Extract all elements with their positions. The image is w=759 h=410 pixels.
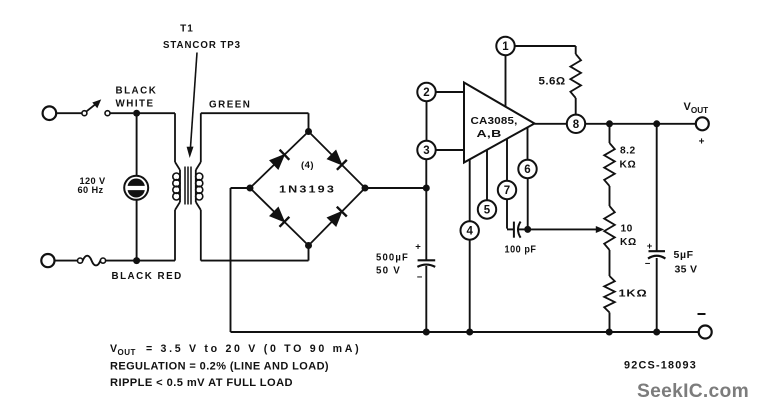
- terminal VOUT plus: [696, 117, 709, 130]
- wire node W1 to transformer primary top: [137, 112, 175, 114]
- label 35 V: [675, 264, 698, 276]
- svg-text:KΩ: KΩ: [620, 159, 637, 170]
- wire pin 4 to rail: [469, 240, 471, 332]
- wire pin 3 to regulator body: [436, 149, 464, 151]
- wire node W1 down to pilot lamp: [136, 113, 138, 176]
- label 1 K-ohm: [619, 289, 648, 300]
- label 8.2: [620, 146, 636, 157]
- resistor R1 5.6 ohm: [570, 54, 581, 98]
- wire capacitor C3 to rail: [656, 258, 658, 332]
- svg-text:WHITE: WHITE: [116, 99, 155, 110]
- wire pin 6 to regulator bottom edge: [527, 128, 529, 160]
- svg-text:A,B: A,B: [477, 129, 502, 140]
- wire R2 to potentiometer R3: [609, 186, 611, 206]
- label K-ohm (R2): [620, 159, 637, 170]
- svg-text:(4): (4): [301, 160, 314, 171]
- wire bridge plus to node N1: [365, 187, 426, 189]
- junction node bridge right (DC plus): [362, 185, 369, 192]
- label 1N3193: [279, 183, 336, 195]
- pin 5: [478, 200, 496, 218]
- op-amp U1 CA3085 A,B (regulator triangle): [464, 83, 535, 163]
- svg-text:+: +: [647, 241, 653, 252]
- wire resistor R1 to pin 8: [575, 98, 577, 114]
- wire pin 5 to regulator bottom edge: [486, 150, 488, 200]
- svg-text:60 Hz: 60 Hz: [77, 185, 103, 195]
- wire secondary bottom to bridge bottom node: [201, 246, 309, 261]
- label (4): [301, 160, 314, 171]
- svg-text:8.2: 8.2: [620, 146, 636, 157]
- wire bridge minus to bottom rail: [231, 188, 251, 332]
- label CA3085,: [471, 116, 518, 127]
- wire capacitor C2 to node N2: [519, 228, 525, 230]
- svg-text:BLACK: BLACK: [116, 86, 158, 97]
- wire capacitor C1 to rail: [425, 266, 427, 332]
- svg-text:7: 7: [504, 185, 510, 197]
- label + (output polarity): [699, 137, 705, 148]
- pin 2: [417, 83, 435, 101]
- capacitor C1 500uF 50V (polarized): [415, 241, 435, 283]
- label 60 Hz: [77, 185, 103, 195]
- svg-text:1: 1: [502, 41, 509, 53]
- label WHITE (top lead): [116, 99, 155, 110]
- wire node down to capacitor C3: [656, 124, 658, 251]
- junction R4 on rail: [606, 329, 613, 336]
- junction C1 on rail: [423, 329, 430, 336]
- junction node W2 (lamp tap, bottom): [133, 257, 140, 264]
- svg-text:RIPPLE < 0.5 mV AT FULL LOAD: RIPPLE < 0.5 mV AT FULL LOAD: [110, 377, 293, 389]
- junction node W1 (lamp tap, top): [133, 110, 140, 117]
- label A,B: [477, 129, 502, 140]
- label STANCOR TP3: [163, 40, 241, 51]
- potentiometer R3 10 K-ohm: [604, 206, 615, 250]
- wire node W2 to transformer primary bottom: [137, 260, 175, 262]
- svg-text:4: 4: [466, 226, 473, 238]
- pin 1: [496, 37, 514, 55]
- note line 1: VOUT range: [110, 343, 359, 357]
- label GREEN (secondary lead): [209, 99, 251, 110]
- svg-text:T1: T1: [180, 24, 194, 35]
- svg-text:2: 2: [423, 87, 429, 99]
- pilot lamp DS1 (120 V 60 Hz indicator): [124, 176, 148, 200]
- pin 3: [417, 141, 435, 159]
- wire node to resistor R2: [609, 124, 611, 143]
- svg-text:1N3193: 1N3193: [279, 183, 336, 195]
- svg-text:STANCOR TP3: STANCOR TP3: [163, 40, 241, 51]
- wire pilot lamp to node W2: [136, 200, 138, 261]
- label K-ohm (R3): [620, 237, 637, 248]
- svg-text:REGULATION = 0.2% (LINE AND LO: REGULATION = 0.2% (LINE AND LOAD): [110, 361, 329, 373]
- svg-text:35 V: 35 V: [675, 264, 698, 276]
- wire node N1 down to capacitor C1: [425, 188, 427, 260]
- diode CR3 (left-bottom edge, 1N3193): [270, 207, 289, 226]
- label 100 pF: [505, 244, 537, 255]
- wire node N2 to potentiometer R3 wiper: [528, 226, 605, 233]
- transformer T1 primary winding: [173, 113, 180, 260]
- pin 7: [498, 181, 516, 199]
- svg-text:V: V: [110, 343, 117, 355]
- note line 2: regulation: [110, 361, 329, 373]
- svg-text:100 pF: 100 pF: [505, 244, 537, 255]
- pin 4: [461, 221, 479, 239]
- svg-text:50 V: 50 V: [376, 265, 401, 276]
- svg-text:−: −: [645, 259, 651, 270]
- svg-text:10: 10: [621, 223, 633, 234]
- watermark SeekIC.com: [637, 380, 749, 402]
- svg-text:8: 8: [573, 119, 580, 131]
- svg-text:+: +: [415, 241, 421, 252]
- junction node 5uF top: [653, 120, 660, 127]
- label - (output polarity): [698, 313, 706, 315]
- wire terminal to fuse F1: [55, 260, 78, 262]
- bridge rectifier ring (4x 1N3193): [250, 132, 365, 246]
- wire switch to node W1: [110, 112, 133, 114]
- svg-text:CA3085,: CA3085,: [471, 116, 518, 127]
- junction C3 on rail: [653, 329, 660, 336]
- switch S1 (open lever with arrow): [82, 99, 110, 115]
- resistor R2 8.2 K-ohm: [604, 143, 615, 186]
- junction pin 4 on rail: [466, 329, 473, 336]
- label 500 uF: [376, 253, 409, 264]
- wire bottom DC rail (minus bus): [231, 331, 699, 333]
- svg-text:BLACK RED: BLACK RED: [112, 271, 183, 282]
- svg-text:OUT: OUT: [118, 348, 136, 357]
- label 5.6 ohm: [539, 76, 566, 88]
- svg-text:5.6Ω: 5.6Ω: [539, 76, 566, 88]
- diode CR4 (bottom-right edge, 1N3193): [327, 207, 346, 226]
- capacitor C2 100 pF: [514, 222, 521, 238]
- svg-text:92CS-18093: 92CS-18093: [624, 360, 697, 372]
- junction node N1 (unregulated +, pin 3 tap): [423, 185, 430, 192]
- wire pin 7 down to capacitor C2: [507, 199, 513, 229]
- junction node bridge left (DC minus): [247, 185, 254, 192]
- wire pin 7 to regulator bottom edge: [506, 139, 508, 181]
- wire pin 8 to VOUT terminal: [585, 123, 696, 125]
- label 120 V: [79, 176, 105, 186]
- svg-text:5: 5: [484, 205, 491, 217]
- wire GREEN: secondary top to bridge top node: [201, 113, 309, 131]
- terminal AC input bottom (plug): [41, 254, 54, 267]
- pin 8: [567, 115, 585, 133]
- wire pin 6 down to node N2: [527, 178, 529, 229]
- label VOUT (output): [684, 101, 709, 115]
- svg-text:+: +: [699, 137, 705, 148]
- label BLACK (top lead): [116, 86, 158, 97]
- junction node bridge bottom (AC): [305, 242, 312, 249]
- junction node N2 (pin 6 / C2 / wiper): [524, 226, 531, 233]
- svg-text:GREEN: GREEN: [209, 99, 251, 110]
- label 50 V: [376, 265, 401, 276]
- diode CR1 (left-top edge, 1N3193): [270, 150, 289, 169]
- capacitor C3 5uF 35V (polarized): [645, 241, 666, 270]
- fuse / breaker F1: [78, 256, 106, 266]
- svg-text:−: −: [417, 272, 423, 283]
- wire pin 2 to regulator body: [436, 91, 464, 93]
- svg-text:SeekIC.com: SeekIC.com: [637, 380, 749, 402]
- wire fuse to node W2: [106, 260, 137, 262]
- pin 6: [518, 160, 536, 178]
- svg-text:KΩ: KΩ: [620, 237, 637, 248]
- wire pin 4 to regulator bottom edge: [469, 159, 471, 221]
- wire R4 to rail: [609, 313, 611, 333]
- wire pin 1 to regulator top edge: [505, 55, 507, 107]
- wire terminal to switch S1: [56, 112, 82, 114]
- label 10: [621, 223, 633, 234]
- label 5 uF: [674, 249, 694, 261]
- transformer T1 core: [185, 167, 191, 205]
- diode CR2 (top-right edge, 1N3193): [327, 150, 346, 169]
- junction node VOUT top (R2 tap): [606, 120, 613, 127]
- wire R3 to resistor R4: [609, 250, 611, 276]
- terminal output minus: [699, 326, 712, 339]
- svg-text:3: 3: [423, 145, 429, 157]
- junction node bridge top (AC): [305, 128, 312, 135]
- wire pin 2 net (vertical link 2-3): [426, 101, 428, 141]
- label BLACK RED (bottom leads): [112, 271, 183, 282]
- figure number 92CS-18093: [624, 360, 697, 372]
- leader arrow from T1 label to transformer core: [187, 53, 197, 159]
- terminal AC input top (plug): [43, 106, 57, 120]
- svg-text:5µF: 5µF: [674, 249, 694, 261]
- note line 3: ripple: [110, 377, 293, 389]
- wire pin 1 to resistor R1: [515, 46, 576, 54]
- svg-text:500µF: 500µF: [376, 253, 409, 264]
- svg-text:= 3.5 V to 20 V (0 TO 90 mA): = 3.5 V to 20 V (0 TO 90 mA): [146, 343, 359, 355]
- resistor R4 1 K-ohm: [604, 276, 615, 313]
- label T1: [180, 24, 194, 35]
- svg-text:6: 6: [524, 164, 530, 176]
- svg-text:1KΩ: 1KΩ: [619, 289, 648, 300]
- wire regulator output (apex) to pin 8: [535, 123, 567, 125]
- wire pin 3 down to node N1: [425, 159, 427, 188]
- transformer T1 secondary winding: [196, 113, 203, 260]
